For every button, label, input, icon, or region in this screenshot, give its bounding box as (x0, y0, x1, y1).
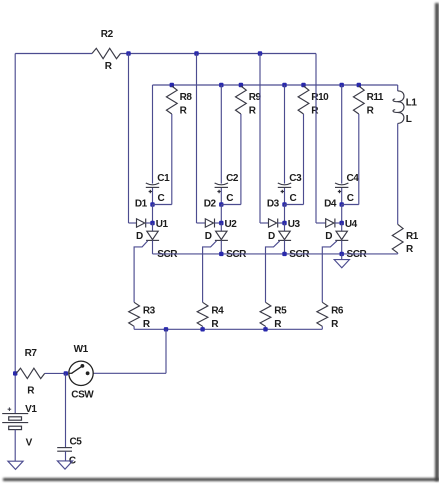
wire cap node to diode node cell 1 (152, 205, 154, 224)
battery V1 (2, 404, 37, 449)
node top-rail junction above U2 (194, 51, 198, 55)
svg-text:C: C (226, 193, 233, 204)
wire bus down to switch (94, 329, 167, 373)
svg-text:D1: D1 (135, 198, 148, 209)
svg-text:L1: L1 (406, 97, 418, 108)
switch W1 (CSW) (69, 344, 94, 401)
wire anode feed column cell 2 (197, 54, 206, 224)
wire anode feed column cell 3 (260, 54, 269, 224)
wire capacitor column cell 4 (341, 85, 343, 205)
diode D4 (325, 219, 342, 242)
svg-text:D: D (325, 231, 332, 242)
wire bottom gate bus (R3-R6) (134, 328, 322, 330)
capacitor C4 (335, 173, 359, 204)
wire R11 bottom branch to cap node (342, 114, 359, 205)
svg-text:U3: U3 (288, 219, 301, 230)
diode D3 (268, 219, 285, 242)
node diode/SCR anode junction cell 3 (282, 219, 300, 230)
svg-text:L: L (406, 114, 412, 125)
svg-text:R: R (105, 61, 113, 72)
wire switch node down to C5 (65, 373, 67, 447)
svg-text:R: R (249, 106, 257, 117)
svg-text:R10: R10 (311, 92, 329, 103)
wire gate of U1 down to R3 (134, 241, 148, 302)
wire R9 bottom branch to cap node (221, 114, 241, 205)
svg-text:R: R (331, 319, 339, 330)
svg-text:R: R (274, 319, 282, 330)
svg-text:V: V (26, 438, 33, 449)
node top-rail junction above U3 (258, 51, 262, 55)
svg-text:R6: R6 (331, 305, 344, 316)
node second-rail junction C3 column (282, 83, 286, 87)
node top-rail junction above U1 (126, 51, 130, 55)
wire battery to ground (14, 430, 16, 462)
svg-text:R11: R11 (367, 92, 384, 103)
svg-text:SCR: SCR (289, 249, 310, 260)
wire gate of U3 down to R5 (266, 241, 280, 302)
svg-text:C2: C2 (226, 173, 239, 184)
capacitor C3 (278, 173, 302, 204)
svg-text:SCR: SCR (226, 249, 247, 260)
wire inductor column from second rail (397, 85, 399, 91)
svg-text:R3: R3 (143, 305, 156, 316)
resistor R7 (16, 348, 66, 397)
svg-text:CSW: CSW (71, 389, 94, 400)
node switch branch junction (164, 327, 168, 331)
wire R8 bottom branch to cap node (153, 114, 172, 205)
resistor R10 (298, 83, 329, 117)
node U3 cathode junction (282, 252, 286, 256)
wire cap node to diode node cell 2 (220, 205, 222, 224)
node U2 cathode junction (219, 252, 223, 256)
node second-rail junction C2 column (219, 83, 223, 87)
svg-text:C: C (290, 193, 297, 204)
diode D1 (136, 219, 153, 242)
wire capacitor column cell 1 (152, 85, 154, 205)
svg-text:R: R (311, 106, 319, 117)
svg-text:V1: V1 (25, 404, 37, 415)
svg-text:C: C (158, 193, 165, 204)
svg-text:R: R (27, 386, 35, 397)
svg-text:R5: R5 (274, 305, 287, 316)
resistor R1 (392, 224, 418, 255)
svg-text:R4: R4 (211, 305, 224, 316)
capacitor C2 (215, 173, 239, 204)
svg-text:R: R (367, 106, 375, 117)
svg-text:C3: C3 (289, 173, 302, 184)
ground at U4 cathode (334, 254, 349, 268)
svg-text:W1: W1 (74, 344, 89, 355)
wire cap node to diode node cell 3 (284, 205, 286, 224)
node second-rail junction C4 column (340, 83, 344, 87)
wire capacitor column cell 2 (220, 85, 222, 205)
wire anode feed column cell 1 (129, 54, 137, 224)
capacitor C1 (146, 173, 170, 204)
svg-text:U2: U2 (225, 219, 238, 230)
svg-text:R: R (143, 319, 151, 330)
svg-text:R: R (406, 244, 414, 255)
resistor R6 (317, 302, 344, 330)
resistor R4 (197, 302, 224, 330)
resistor R9 (236, 83, 262, 117)
svg-text:R1: R1 (406, 231, 419, 242)
svg-text:R8: R8 (180, 92, 193, 103)
svg-text:D: D (205, 231, 212, 242)
svg-text:U4: U4 (345, 219, 358, 230)
svg-text:C: C (347, 193, 354, 204)
svg-text:D: D (136, 231, 143, 242)
svg-text:D: D (268, 231, 275, 242)
node R5 bottom junction (263, 327, 267, 331)
svg-text:D3: D3 (267, 198, 280, 209)
capacitor C5 (57, 437, 82, 467)
wire capacitor column cell 3 (284, 85, 286, 205)
svg-text:R7: R7 (25, 348, 38, 359)
svg-text:C1: C1 (157, 173, 170, 184)
node U4 cathode junction (340, 252, 344, 256)
svg-text:R: R (180, 106, 188, 117)
SCR U2 (215, 223, 247, 260)
svg-text:R2: R2 (101, 29, 114, 40)
wire left rail (battery + up to top rail) (14, 54, 16, 414)
resistor R2 (92, 29, 121, 72)
SCR U3 (278, 223, 310, 260)
SCR U1 (146, 223, 178, 260)
svg-text:SCR: SCR (347, 249, 368, 260)
svg-text:C5: C5 (70, 437, 83, 448)
inductor L1 (393, 91, 417, 125)
resistor R8 (166, 83, 192, 117)
resistor R5 (260, 302, 287, 330)
svg-text:D2: D2 (204, 198, 217, 209)
wire gate of U2 down to R4 (203, 241, 217, 302)
wire second rail (C/R top bus) (153, 84, 398, 86)
node diode/SCR anode junction cell 1 (150, 219, 168, 230)
wire SCR cathode bus (153, 253, 398, 255)
svg-text:U1: U1 (156, 219, 169, 230)
node cell 1 cap/R junction (135, 198, 155, 209)
wire anode feed column cell 4 (316, 54, 326, 224)
node diode/SCR anode junction cell 2 (219, 219, 237, 230)
node cell 2 cap/R junction (204, 198, 224, 209)
svg-text:D4: D4 (324, 198, 337, 209)
svg-text:SCR: SCR (157, 249, 178, 260)
wire gate of U4 down to R6 (322, 241, 337, 302)
resistor R3 (129, 302, 156, 330)
wire top rail (15, 53, 316, 55)
svg-text:C4: C4 (347, 173, 360, 184)
svg-text:R: R (211, 319, 219, 330)
wire L1 to R1 (397, 123, 399, 224)
SCR U4 (335, 223, 367, 260)
wire cap node to diode node cell 4 (341, 205, 343, 224)
ground below C5 (57, 461, 72, 469)
diode D2 (205, 219, 222, 242)
wire C5 to ground (65, 451, 67, 461)
node switch left terminal (64, 371, 68, 375)
node diode/SCR anode junction cell 4 (340, 219, 358, 230)
node R4 bottom junction (200, 327, 204, 331)
wire R10 bottom branch to cap node (285, 114, 304, 205)
ground below battery (8, 461, 23, 469)
node cell 4 cap/R junction (324, 198, 344, 209)
node R7 tap on left rail (13, 371, 17, 375)
resistor R11 (353, 83, 384, 117)
node cell 3 cap/R junction (267, 198, 287, 209)
